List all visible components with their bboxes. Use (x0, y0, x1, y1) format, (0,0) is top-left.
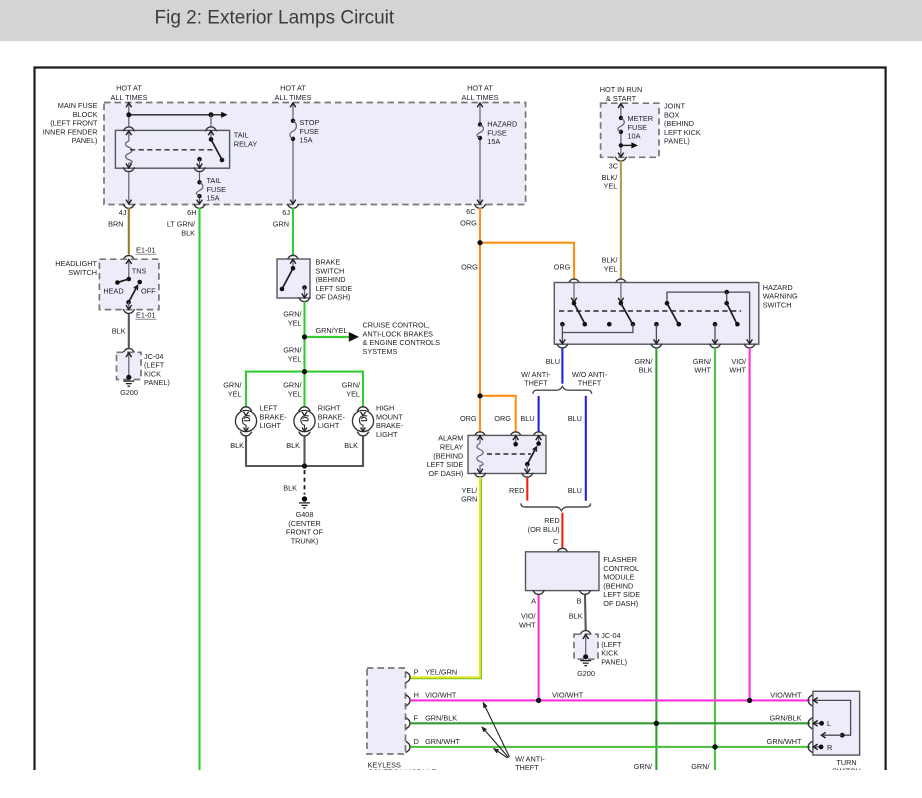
svg-text:(BEHIND: (BEHIND (603, 581, 633, 590)
svg-text:10A: 10A (628, 132, 641, 141)
connector 6H (194, 204, 206, 208)
svg-text:HOT AT: HOT AT (467, 84, 493, 93)
connector hazard out VIO/WHT (744, 344, 756, 348)
wire GRN/YEL to right brake light (303, 372, 305, 408)
svg-text:Fig 2: Exterior Lamps Circuit: Fig 2: Exterior Lamps Circuit (155, 8, 395, 29)
tail relay coil (126, 141, 133, 168)
svg-text:VIO/WHT: VIO/WHT (552, 690, 584, 699)
svg-text:BLK: BLK (230, 441, 244, 450)
tail relay switch pin (210, 131, 212, 139)
svg-text:GRN/WHT: GRN/WHT (425, 737, 460, 746)
svg-text:MOUNT: MOUNT (376, 412, 403, 421)
svg-text:LIGHT: LIGHT (260, 421, 282, 430)
headlight switch output pin (128, 302, 130, 309)
node ground bus junction (302, 463, 307, 468)
svg-text:ORG: ORG (494, 414, 511, 423)
svg-text:BLK/: BLK/ (601, 173, 618, 182)
connector hazard out GRN/BLK (651, 344, 663, 348)
svg-text:WHT: WHT (519, 620, 536, 629)
svg-text:HEAD: HEAD (103, 286, 123, 295)
svg-text:WHT: WHT (729, 366, 746, 375)
svg-text:HOT IN RUN: HOT IN RUN (600, 85, 642, 94)
svg-text:FUSE: FUSE (487, 128, 507, 137)
svg-text:E1-01: E1-01 (136, 246, 155, 255)
svg-text:BLU: BLU (546, 357, 560, 366)
connector JC-04 headlight top (123, 349, 135, 353)
svg-text:(BEHIND: (BEHIND (316, 275, 346, 284)
turn switch internal VIO path (814, 700, 851, 735)
connector hazard in BLK/YEL (615, 279, 627, 283)
connector turn switch VIO/WHT (808, 695, 812, 706)
hazard GRN/BLK output pin (654, 322, 659, 327)
svg-text:15A: 15A (300, 136, 313, 145)
hazard blade 4 (727, 303, 737, 323)
hazard VIO output arrow (747, 339, 753, 343)
joint box dashed box (601, 103, 659, 157)
svg-text:ALL TIMES: ALL TIMES (111, 93, 148, 102)
wire BRN 4J (128, 208, 130, 255)
hazard fuse element (478, 122, 482, 126)
svg-text:RED: RED (544, 516, 559, 525)
svg-text:LIGHT: LIGHT (376, 430, 398, 439)
tail relay box (115, 130, 229, 168)
alarm relay coil (477, 444, 483, 474)
svg-text:GRN: GRN (461, 495, 477, 504)
svg-text:GRN/WHT: GRN/WHT (767, 737, 802, 746)
node ORG junction 2 (477, 393, 482, 398)
hazard center pin (607, 322, 612, 327)
svg-text:TAIL: TAIL (207, 176, 222, 185)
svg-text:ORG: ORG (461, 262, 478, 271)
svg-text:B: B (577, 596, 582, 605)
connector hazard out BLU (557, 344, 569, 348)
connector alarm relay out switch (521, 473, 533, 477)
connector 4J (123, 204, 135, 208)
headlight switch common node (127, 277, 132, 282)
svg-text:YEL: YEL (288, 318, 302, 327)
svg-text:GRN/: GRN/ (283, 346, 302, 355)
wire GRN/BLK hazard long vertical (655, 348, 657, 770)
headlight switch input pin (128, 260, 130, 279)
svg-text:P: P (414, 667, 419, 676)
tail relay output pin (197, 157, 202, 162)
connector 3C (615, 157, 627, 161)
svg-text:FUSE: FUSE (628, 123, 648, 132)
hazard BLU output pin (561, 333, 563, 344)
svg-text:GRN/YEL: GRN/YEL (315, 326, 347, 335)
svg-text:GRN/: GRN/ (283, 310, 302, 319)
svg-text:LT GRN/: LT GRN/ (167, 220, 196, 229)
svg-text:INNER FENDER: INNER FENDER (43, 127, 98, 136)
svg-text:FLASHER: FLASHER (603, 555, 637, 564)
headlight switch blade to HEAD (117, 279, 128, 283)
svg-text:RELAY: RELAY (440, 443, 464, 452)
node VIO/WHT flasher junction (536, 698, 541, 703)
node VIO/WHT hazard junction (747, 698, 752, 703)
wire VIO/WHT hazard down (749, 348, 751, 701)
joint box branch node and arrow (619, 143, 623, 147)
svg-text:HAZARD: HAZARD (487, 120, 517, 129)
connector hazard out GRN/WHT (709, 344, 721, 348)
svg-text:BLU: BLU (568, 486, 582, 495)
wire GRN/WHT hazard long vertical (714, 348, 716, 770)
svg-text:R: R (827, 743, 832, 752)
node GRN/BLK junction (654, 721, 659, 726)
svg-text:BLU: BLU (520, 414, 534, 423)
headlight switch lower blade (129, 287, 137, 302)
svg-text:& ENGINE CONTROLS: & ENGINE CONTROLS (363, 338, 441, 347)
svg-text:LEFT KICK: LEFT KICK (664, 128, 701, 137)
svg-text:BRAKE-: BRAKE- (260, 412, 288, 421)
connector JC-04 flasher top (580, 631, 592, 635)
svg-text:YEL: YEL (288, 389, 302, 398)
node ORG junction 1 (477, 240, 482, 245)
svg-text:ALARM: ALARM (438, 434, 463, 443)
brace red or blu merge (521, 503, 591, 510)
svg-text:YEL: YEL (346, 389, 360, 398)
svg-text:LIGHT: LIGHT (318, 421, 340, 430)
wire BLK/YEL 3C (620, 161, 622, 280)
stop fuse element (291, 119, 295, 123)
hazard top bar (667, 292, 750, 344)
wire GRN/YEL cruise branch (305, 336, 351, 338)
wire ORG branch to hazard switch (480, 243, 574, 280)
svg-text:4J: 4J (119, 208, 127, 217)
svg-text:BLU: BLU (568, 414, 582, 423)
alarm relay coil pin (479, 436, 481, 444)
svg-text:YEL: YEL (604, 264, 618, 273)
svg-text:VIO/: VIO/ (521, 612, 537, 621)
wire ORG 6C (479, 208, 481, 432)
svg-text:KICK: KICK (144, 369, 161, 378)
svg-text:GRN/: GRN/ (342, 381, 361, 390)
node bus junction (126, 112, 131, 117)
svg-text:MAIN FUSE: MAIN FUSE (58, 101, 98, 110)
tail relay dashed link (130, 149, 213, 151)
wire VIO/WHT run to turn switch (410, 699, 810, 701)
hazard blade 1 (574, 303, 585, 323)
wire GRN 6J (292, 208, 294, 256)
svg-text:THEFT: THEFT (578, 379, 602, 388)
svg-text:(LEFT: (LEFT (144, 361, 165, 370)
svg-text:LEFT: LEFT (260, 404, 278, 413)
svg-text:FUSE: FUSE (207, 185, 227, 194)
svg-text:(LEFT FRONT: (LEFT FRONT (50, 119, 98, 128)
svg-text:STOP: STOP (300, 118, 320, 127)
svg-text:C: C (553, 537, 558, 546)
hazard dashed link (559, 310, 741, 312)
headlight switch dashed box (99, 259, 158, 309)
connector tail relay coil top (123, 127, 135, 131)
connector 6C (474, 204, 486, 208)
lamp high mount brake light (352, 407, 373, 436)
brace anti-theft split (533, 386, 592, 393)
connector keyless F (406, 718, 410, 729)
svg-text:E1-01: E1-01 (136, 311, 155, 320)
svg-text:GRN/: GRN/ (283, 381, 302, 390)
svg-text:WHT: WHT (694, 366, 711, 375)
svg-text:RIGHT: RIGHT (318, 404, 341, 413)
turn switch internal arrow to L R (840, 733, 845, 738)
svg-text:GRN/: GRN/ (634, 357, 653, 366)
alarm relay blade (527, 448, 536, 464)
svg-text:YEL: YEL (228, 389, 242, 398)
svg-text:OF DASH): OF DASH) (428, 469, 463, 478)
svg-text:JC-04: JC-04 (601, 631, 620, 640)
cruise branch arrow (349, 332, 359, 342)
connector tail relay coil bottom (123, 167, 135, 171)
svg-text:A: A (531, 596, 536, 605)
wire BLK lamp ground bus (246, 436, 363, 466)
brake switch input pin (292, 259, 294, 268)
svg-text:PANEL): PANEL) (601, 658, 627, 667)
svg-text:BLK: BLK (112, 326, 126, 335)
connector tail relay output bottom (194, 167, 206, 171)
svg-text:FUSE: FUSE (300, 127, 320, 136)
svg-text:BLK: BLK (286, 441, 300, 450)
svg-text:(LEFT: (LEFT (601, 640, 622, 649)
svg-text:PANEL): PANEL) (72, 136, 98, 145)
svg-text:ORG: ORG (554, 262, 571, 271)
wire tail fuse feed (199, 173, 201, 204)
svg-text:ALL TIMES: ALL TIMES (462, 93, 499, 102)
wire YEL/GRN alarm to keyless (411, 477, 480, 677)
JC-04 flasher internal wire (585, 635, 587, 657)
hazard pin ORG (573, 283, 575, 303)
wire BLK headlight to JC-04 (128, 314, 130, 349)
svg-text:OFF: OFF (141, 286, 156, 295)
svg-text:BRAKE-: BRAKE- (376, 421, 404, 430)
wire bus drop to relay contact (210, 115, 212, 127)
svg-text:F: F (414, 713, 419, 722)
hazard left output link (560, 322, 565, 327)
svg-text:THEFT: THEFT (524, 379, 548, 388)
hazard blade 2 (621, 303, 632, 323)
JC-04 headlight internal wire (128, 353, 130, 378)
turn switch R pin (814, 746, 821, 748)
wire BLU with anti-theft (538, 396, 540, 432)
wire GRN/BLK run to turn switch (410, 722, 810, 724)
alarm relay pin BLU (538, 436, 540, 444)
svg-text:W/O ANTI-: W/O ANTI- (572, 370, 608, 379)
wire RED OR BLU to flasher (561, 513, 563, 548)
hazard pin 3 (665, 301, 670, 306)
hazard blade 3 (667, 303, 678, 323)
alarm relay box (468, 435, 546, 473)
wire BLK dashed to G408 (304, 470, 306, 495)
svg-text:WARNING: WARNING (763, 292, 798, 301)
svg-text:BLK: BLK (344, 441, 358, 450)
svg-text:VIO/WHT: VIO/WHT (425, 690, 457, 699)
alarm relay switch output (526, 464, 528, 473)
connector tail relay contact top (205, 127, 217, 131)
svg-text:& START: & START (606, 94, 637, 103)
svg-text:GRN/BLK: GRN/BLK (425, 713, 457, 722)
svg-text:VIO/WHT: VIO/WHT (770, 690, 802, 699)
svg-text:CONTROL: CONTROL (603, 564, 639, 573)
tail relay switch blade (211, 139, 222, 159)
keyless control module dashed box (367, 668, 406, 754)
wire VIO/WHT flasher A down (538, 595, 540, 700)
svg-text:HEADLIGHT: HEADLIGHT (55, 259, 97, 268)
svg-text:MODULE: MODULE (603, 573, 634, 582)
svg-text:OF DASH): OF DASH) (316, 293, 351, 302)
OFF contact (137, 280, 142, 285)
connector E1-01 bottom (123, 309, 135, 313)
connector brake switch top (287, 255, 299, 259)
svg-text:L: L (827, 719, 831, 728)
svg-text:BOX: BOX (664, 110, 680, 119)
svg-text:RELAY: RELAY (234, 139, 258, 148)
connector alarm relay in ORG (510, 432, 522, 436)
svg-text:(CENTER: (CENTER (288, 519, 320, 528)
brake switch box (277, 259, 310, 298)
svg-text:D: D (414, 737, 419, 746)
svg-text:FRONT OF: FRONT OF (286, 528, 324, 537)
svg-text:JOINT: JOINT (664, 102, 686, 111)
wire GRN/WHT run to turn switch (410, 746, 810, 748)
svg-text:HOT AT: HOT AT (280, 84, 306, 93)
wire LT GRN/BLK 6H long vertical (198, 208, 200, 770)
hazard warning switch box (554, 283, 759, 345)
svg-text:GRN/: GRN/ (223, 381, 242, 390)
svg-text:ANTI-LOCK BRAKES: ANTI-LOCK BRAKES (363, 329, 434, 338)
connector keyless H (406, 695, 410, 706)
svg-text:G408: G408 (296, 510, 314, 519)
hazard GRN/WHT output pin (713, 322, 718, 327)
svg-text:TRUNK): TRUNK) (291, 536, 319, 545)
svg-text:GRN: GRN (273, 220, 289, 229)
svg-text:W/ ANTI-: W/ ANTI- (521, 370, 551, 379)
svg-text:6J: 6J (282, 208, 290, 217)
wire relay coil to 4J exit (128, 173, 130, 204)
svg-text:KICK: KICK (601, 649, 618, 658)
connector brake switch bottom (299, 297, 311, 301)
svg-text:JC-04: JC-04 (144, 352, 163, 361)
svg-text:BLK/: BLK/ (602, 256, 619, 265)
svg-text:GRN/: GRN/ (634, 762, 653, 771)
hazard pin 4 (724, 301, 729, 306)
wire BLU hazard down (561, 348, 563, 384)
svg-text:BLK: BLK (181, 228, 195, 237)
brake switch blade (282, 268, 293, 289)
connector flasher C (557, 548, 569, 552)
svg-text:(OR BLU): (OR BLU) (528, 525, 560, 534)
alarm relay dashed link (487, 453, 531, 455)
connector keyless D (406, 741, 410, 752)
svg-text:HOT AT: HOT AT (116, 84, 142, 93)
wire ORG branch to alarm relay (480, 396, 516, 432)
svg-text:15A: 15A (207, 194, 220, 203)
tail relay coil pin (128, 131, 130, 141)
wire RED alarm out (526, 477, 528, 501)
svg-text:GRN/: GRN/ (691, 762, 710, 771)
header bar (0, 0, 922, 41)
svg-text:(BEHIND: (BEHIND (664, 119, 694, 128)
wire stop fuse vertical (292, 103, 294, 204)
svg-text:BLK: BLK (569, 612, 583, 621)
wire GRN/YEL lamp bus (246, 372, 363, 408)
ground G200 headlight (126, 375, 131, 380)
svg-text:TNS: TNS (132, 267, 147, 276)
anti-theft pointer arrows (483, 705, 509, 758)
svg-text:GRN/BLK: GRN/BLK (769, 714, 801, 723)
ground G200 flasher (583, 654, 588, 659)
svg-text:3C: 3C (609, 161, 618, 170)
connector flasher A (533, 590, 545, 594)
svg-text:YEL/GRN: YEL/GRN (425, 667, 457, 676)
svg-text:METER: METER (628, 114, 654, 123)
main fuse block dashed box (104, 103, 526, 205)
tail fuse element (197, 180, 201, 184)
svg-text:BRAKE: BRAKE (316, 258, 341, 267)
svg-text:BRN: BRN (108, 220, 123, 229)
svg-text:G200: G200 (120, 388, 138, 397)
svg-text:HAZARD: HAZARD (763, 283, 793, 292)
svg-text:LEFT SIDE: LEFT SIDE (427, 460, 464, 469)
svg-text:6H: 6H (187, 208, 196, 217)
svg-text:VIO/: VIO/ (731, 357, 747, 366)
wire hazard fuse vertical (479, 103, 481, 204)
connector alarm relay out coil (474, 473, 486, 477)
connector E1-01 top (123, 256, 135, 260)
connector turn switch GRN/WHT (808, 741, 812, 752)
lamp right brake light (294, 407, 315, 436)
svg-text:TAIL: TAIL (234, 131, 249, 140)
connector turn switch GRN/BLK (808, 718, 812, 729)
svg-text:LEFT SIDE: LEFT SIDE (603, 590, 640, 599)
svg-text:BRAKE-: BRAKE- (318, 412, 346, 421)
hazard pin BLK/YEL (620, 283, 622, 303)
svg-text:H: H (414, 690, 419, 699)
svg-text:LEFT SIDE: LEFT SIDE (316, 284, 353, 293)
svg-text:PANEL): PANEL) (144, 378, 170, 387)
brake switch output pin (302, 285, 307, 290)
connector alarm relay in BLU (533, 432, 545, 436)
turn switch box (813, 691, 860, 755)
svg-text:PANEL): PANEL) (664, 137, 690, 146)
wire GRN/YEL brake switch down (303, 301, 305, 371)
svg-text:YEL: YEL (288, 354, 302, 363)
wire BLK flasher B (584, 595, 587, 631)
svg-text:ALL TIMES: ALL TIMES (275, 93, 312, 102)
svg-text:SWITCH: SWITCH (68, 268, 97, 277)
node GRN/WHT junction (712, 744, 717, 749)
svg-text:BLOCK: BLOCK (73, 110, 98, 119)
JC-04 box flasher (574, 634, 598, 659)
svg-text:ORG: ORG (460, 414, 477, 423)
svg-text:GRN/: GRN/ (693, 357, 712, 366)
svg-text:SYSTEMS: SYSTEMS (363, 347, 398, 356)
node lamp branch junction (302, 369, 307, 374)
alarm relay pin ORG (515, 436, 517, 444)
node cruise junction (302, 334, 307, 339)
connector hazard in ORG (568, 279, 580, 283)
svg-text:SWITCH: SWITCH (763, 300, 792, 309)
connector 6J (287, 204, 299, 208)
turn switch L pin (814, 722, 822, 724)
svg-text:CRUISE CONTROL,: CRUISE CONTROL, (363, 321, 430, 330)
connector flasher B (579, 590, 591, 594)
wire hot feed 4J (128, 103, 130, 127)
svg-text:OF DASH): OF DASH) (603, 599, 638, 608)
connector keyless P (406, 672, 410, 683)
connector alarm relay in coil (474, 432, 486, 436)
svg-text:ORG: ORG (460, 219, 477, 228)
svg-text:15A: 15A (487, 137, 500, 146)
svg-text:RED: RED (509, 486, 524, 495)
flasher control module box (526, 552, 600, 591)
